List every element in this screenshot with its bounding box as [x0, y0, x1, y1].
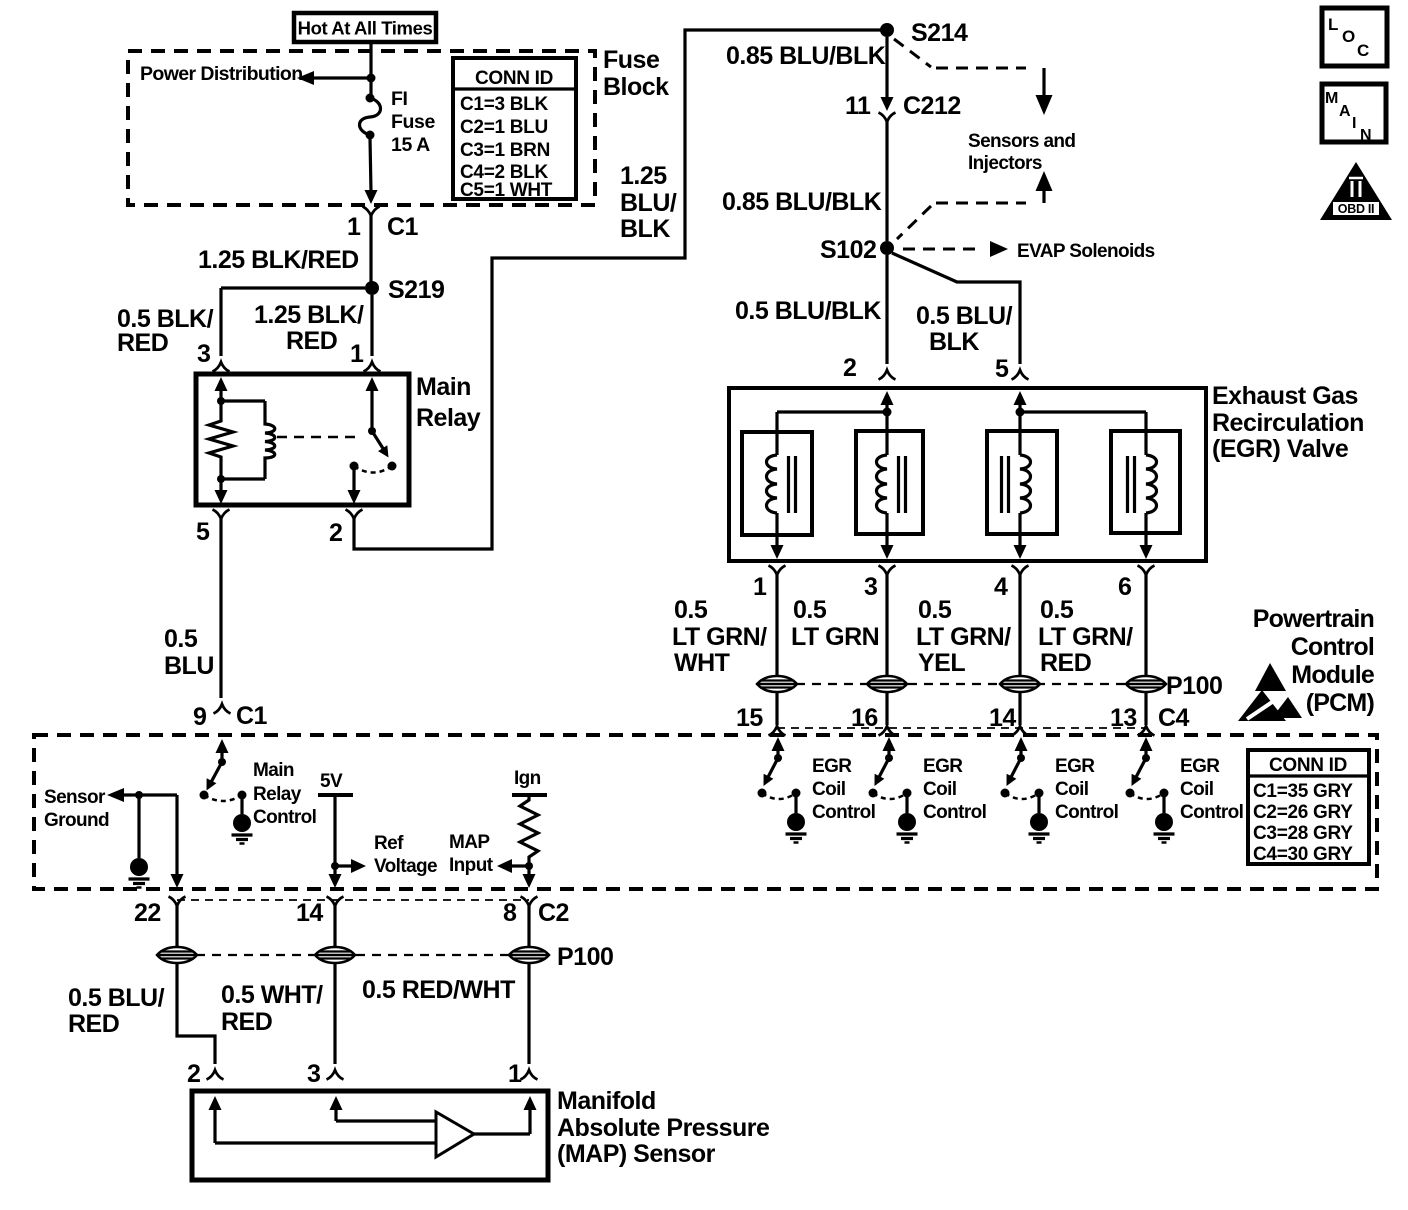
EGR solenoid coil 3 box [987, 431, 1057, 534]
svg-text:RED: RED [1040, 649, 1091, 677]
connector PCM pin 16 [879, 726, 896, 736]
svg-text:16: 16 [851, 704, 878, 732]
svg-text:C212: C212 [903, 92, 961, 120]
wire pin 22 to P100 [175, 906, 178, 947]
EGR valve box [729, 388, 1206, 561]
svg-text:Relay: Relay [416, 404, 481, 432]
svg-text:YEL: YEL [918, 649, 965, 677]
EGR solenoid coil 3 [1018, 412, 1021, 455]
svg-text:C2: C2 [538, 899, 569, 927]
svg-text:Control: Control [1291, 633, 1374, 661]
wire S102 branch to EGR pin 5 [892, 253, 1020, 364]
connector PCM pin 14 [1012, 726, 1029, 736]
EGR solenoid coil 1 [775, 412, 778, 455]
svg-text:Injectors: Injectors [968, 153, 1042, 174]
svg-text:S102: S102 [820, 236, 876, 264]
fuse block dashed box [128, 51, 595, 205]
connector EGR pin 6 [1138, 566, 1155, 576]
svg-text:0.5: 0.5 [793, 596, 827, 624]
svg-text:3: 3 [864, 573, 877, 601]
svg-text:P100: P100 [1166, 672, 1222, 700]
svg-text:C5=1 WHT: C5=1 WHT [460, 180, 553, 201]
svg-text:2: 2 [329, 519, 342, 547]
main relay box [196, 374, 409, 505]
svg-text:Input: Input [449, 855, 494, 876]
connector PCM pin 15 [769, 726, 786, 736]
svg-text:Control: Control [923, 802, 986, 823]
wire MAP pin 2 internal [215, 1141, 436, 1144]
svg-text:Control: Control [812, 802, 875, 823]
svg-text:Control: Control [1055, 802, 1118, 823]
connector MAP pin 2 [207, 1070, 224, 1080]
EGR coil control switch 4 [1140, 737, 1153, 751]
svg-text:CONN ID: CONN ID [475, 68, 553, 89]
connector PCM pin 13 C4 [1138, 726, 1155, 736]
svg-text:Hot At All Times: Hot At All Times [298, 18, 433, 39]
svg-text:5V: 5V [320, 771, 343, 792]
connector PCM pin 8 C2 [521, 897, 538, 907]
svg-text:22: 22 [134, 899, 161, 927]
connector EGR pin 3 [879, 566, 896, 576]
wire sensor ground to pin 22 [175, 795, 178, 875]
fuse FI 15A [366, 94, 375, 103]
svg-text:C4=30 GRY: C4=30 GRY [1253, 844, 1353, 865]
svg-text:Manifold: Manifold [557, 1087, 656, 1115]
svg-text:C4: C4 [1158, 704, 1190, 732]
svg-text:15 A: 15 A [391, 134, 430, 156]
svg-text:Coil: Coil [1055, 779, 1089, 800]
connector main relay pin 1 [364, 362, 381, 372]
svg-text:(PCM): (PCM) [1306, 689, 1375, 717]
svg-text:RED: RED [286, 327, 337, 355]
svg-text:BLU/: BLU/ [620, 189, 677, 217]
svg-text:Ref: Ref [374, 833, 404, 854]
wire S102 to EGR pin 2 [885, 255, 888, 364]
ground EGR coil control 4 [1162, 793, 1165, 813]
CONN ID table fuse block [453, 58, 576, 199]
label Hot At All Times [294, 13, 436, 42]
main relay switch common arrow [366, 377, 379, 391]
wire EGR pin 1 to P100 [775, 575, 778, 676]
svg-text:Coil: Coil [1180, 779, 1214, 800]
svg-text:EGR: EGR [1180, 756, 1220, 777]
in-line connector P100 pin 8 [509, 947, 549, 963]
MAP sensor box [192, 1091, 548, 1180]
connector PCM C4 dashes [777, 727, 1146, 729]
EGR solenoid coil 2 box [856, 431, 923, 534]
wire S219 to pin 1 [370, 295, 373, 356]
svg-text:L: L [1328, 15, 1338, 34]
svg-text:Block: Block [603, 73, 669, 101]
svg-text:O: O [1342, 27, 1355, 46]
svg-text:CONN ID: CONN ID [1269, 755, 1347, 776]
wire 5V to pin 14 [329, 874, 342, 888]
svg-text:EGR: EGR [923, 756, 963, 777]
icon OBD II triangle [1320, 162, 1392, 220]
main relay switch [368, 427, 376, 435]
node S102 [880, 241, 894, 255]
wire EGR pin 4 to P100 [1018, 575, 1021, 676]
main relay resistor [217, 397, 225, 405]
EGR solenoid coil 4 [1144, 412, 1147, 455]
wires P100 to PCM C4 [775, 692, 778, 725]
svg-text:Recirculation: Recirculation [1212, 409, 1364, 437]
svg-text:RED: RED [117, 329, 168, 357]
svg-text:Voltage: Voltage [374, 856, 437, 877]
EGR coil control switch 1 [772, 737, 785, 751]
in-line connector P100 dashes 2 [196, 954, 510, 956]
svg-text:C1: C1 [387, 213, 419, 241]
main relay coil [221, 399, 265, 402]
svg-text:13: 13 [1110, 704, 1137, 732]
EGR solenoid coil 2 [885, 412, 888, 455]
svg-text:2: 2 [187, 1060, 200, 1088]
svg-text:C1=3 BLK: C1=3 BLK [460, 94, 548, 115]
svg-text:1: 1 [347, 213, 361, 241]
ground EGR coil control 1 [794, 793, 797, 813]
main relay coil input arrow [215, 377, 228, 391]
svg-text:1.25 BLK/RED: 1.25 BLK/RED [198, 246, 359, 274]
ground EGR coil control 2 [905, 793, 908, 813]
svg-text:Coil: Coil [923, 779, 957, 800]
svg-text:6: 6 [1118, 573, 1131, 601]
connector main relay pin 5 [213, 510, 230, 520]
svg-text:C3=1 BRN: C3=1 BRN [460, 140, 550, 161]
svg-text:1: 1 [508, 1060, 522, 1088]
svg-text:(MAP) Sensor: (MAP) Sensor [557, 1140, 716, 1168]
EGR solenoid coil 4 box [1111, 431, 1180, 533]
MAP pin 1 arrow [528, 1109, 531, 1134]
svg-text:C1=35 GRY: C1=35 GRY [1253, 781, 1353, 802]
MAP pin 3 arrow [330, 1096, 343, 1110]
svg-text:RED: RED [68, 1010, 119, 1038]
svg-text:(EGR) Valve: (EGR) Valve [1212, 435, 1349, 463]
ground EGR coil control 3 [1037, 793, 1040, 813]
svg-text:Powertrain: Powertrain [1253, 605, 1374, 633]
svg-text:BLK: BLK [620, 215, 670, 243]
in-line connector P100 pin 13 [1126, 676, 1166, 692]
svg-text:1.25: 1.25 [620, 162, 667, 190]
node S219 [365, 281, 379, 295]
connector main relay pin 3 [213, 362, 230, 372]
wire EGR pin 3 to P100 [885, 575, 888, 676]
EGR pin 5 feed [1014, 391, 1027, 405]
svg-text:Sensor: Sensor [44, 787, 106, 808]
wire fuse block top feed [369, 42, 372, 95]
svg-text:Exhaust Gas: Exhaust Gas [1212, 382, 1358, 410]
wire MAP amp output [474, 1132, 530, 1135]
connector PCM pin 22 [169, 897, 186, 907]
in-line connector P100 pin 14 [1000, 676, 1040, 692]
svg-text:5: 5 [995, 355, 1009, 383]
svg-text:C3=28 GRY: C3=28 GRY [1253, 823, 1353, 844]
svg-text:15: 15 [736, 704, 763, 732]
wire fuse to C1 [370, 138, 371, 192]
svg-text:Control: Control [253, 807, 316, 828]
PCM dashed box [34, 735, 1377, 889]
connector C212 pin 11 [881, 97, 894, 111]
svg-text:0.5 BLU/: 0.5 BLU/ [916, 302, 1013, 330]
svg-text:Power Distribution: Power Distribution [140, 63, 303, 85]
svg-text:Main: Main [416, 373, 471, 401]
connector main relay pin 2 [346, 510, 363, 520]
wire P100 to MAP pin 3 [333, 963, 336, 1064]
PCM ESD triangle icon 1 [1255, 663, 1286, 691]
svg-text:S214: S214 [911, 19, 968, 47]
wire P100 to MAP pin 2 [177, 963, 215, 1064]
icon LOC box [1322, 8, 1387, 66]
svg-text:Relay: Relay [253, 784, 302, 805]
svg-text:Ground: Ground [44, 810, 109, 831]
EGR coil control switch 3 [1015, 737, 1028, 751]
connector C1 pin 1 [363, 207, 380, 217]
svg-text:C1: C1 [236, 702, 268, 730]
node S214 [880, 23, 894, 37]
svg-text:0.5: 0.5 [1040, 596, 1074, 624]
svg-text:0.85 BLU/BLK: 0.85 BLU/BLK [726, 42, 886, 70]
svg-text:2: 2 [843, 354, 856, 382]
svg-text:0.5: 0.5 [674, 596, 708, 624]
svg-text:Ign: Ign [514, 768, 541, 789]
wire S219 branch to pin 3 [221, 286, 365, 289]
svg-text:1.25 BLK/: 1.25 BLK/ [254, 301, 364, 329]
svg-text:BLU: BLU [164, 652, 214, 680]
svg-text:A: A [1339, 103, 1351, 120]
svg-text:LT GRN/: LT GRN/ [1038, 623, 1133, 651]
svg-text:LT GRN: LT GRN [791, 623, 879, 651]
PCM ESD triangle icon 2 [1238, 690, 1286, 721]
svg-text:0.5 WHT/: 0.5 WHT/ [221, 981, 323, 1009]
svg-text:EGR: EGR [1055, 756, 1095, 777]
dashed arrow EVAP solenoids [903, 248, 983, 251]
svg-text:4: 4 [994, 573, 1008, 601]
svg-text:Sensors and: Sensors and [968, 131, 1075, 152]
wire C1 to S219 [369, 216, 372, 288]
connector EGR pin 4 [1012, 566, 1029, 576]
wire pin 8 to P100 [527, 906, 530, 947]
MAP pin 2 arrow [209, 1096, 222, 1110]
svg-text:OBD II: OBD II [1338, 202, 1374, 216]
svg-text:C: C [1357, 41, 1369, 60]
svg-text:I: I [1352, 115, 1356, 132]
svg-text:14: 14 [989, 704, 1016, 732]
svg-text:Absolute Pressure: Absolute Pressure [557, 1114, 770, 1142]
svg-text:N: N [1360, 127, 1372, 144]
dashed branch to sensors and injectors [894, 39, 931, 67]
svg-text:Module: Module [1291, 661, 1375, 689]
ref voltage arrow [335, 864, 352, 867]
svg-text:1: 1 [350, 340, 364, 368]
svg-text:Coil: Coil [812, 779, 846, 800]
svg-text:0.5 BLU/BLK: 0.5 BLU/BLK [735, 297, 881, 325]
main relay switch output arrow [352, 466, 355, 492]
EGR pin 2 feed [881, 391, 894, 405]
svg-text:C2=26 GRY: C2=26 GRY [1253, 802, 1353, 823]
in-line connector P100 dashes [796, 683, 1127, 685]
wire EGR pin 6 to P100 [1144, 575, 1147, 676]
svg-text:BLK: BLK [929, 328, 979, 356]
svg-text:5: 5 [196, 518, 210, 546]
svg-text:0.5 RED/WHT: 0.5 RED/WHT [362, 976, 515, 1004]
svg-text:11: 11 [845, 92, 871, 120]
connector MAP pin 1 [521, 1070, 538, 1080]
connector EGR pin 1 [769, 566, 786, 576]
icon MAIN box [1322, 84, 1386, 142]
svg-text:8: 8 [503, 899, 517, 927]
resistor Ign pullup [520, 795, 538, 866]
main relay dashed actuator link [277, 436, 362, 439]
EGR solenoid coil 1 box [742, 432, 812, 535]
sensor ground arrow [107, 788, 124, 802]
EGR coil control switch 2 [883, 737, 896, 751]
svg-text:0.5: 0.5 [918, 596, 952, 624]
svg-text:1: 1 [753, 573, 767, 601]
in-line connector P100 pin 22 [157, 947, 197, 963]
wire C212 to S102 [885, 122, 888, 241]
svg-text:EVAP Solenoids: EVAP Solenoids [1017, 241, 1155, 262]
svg-text:Fuse: Fuse [391, 111, 435, 133]
in-line connector P100 pin 14 b [315, 947, 355, 963]
ground main relay control [240, 795, 243, 814]
svg-text:EGR: EGR [812, 756, 852, 777]
svg-text:FI: FI [391, 88, 408, 110]
main relay coil output arrow [219, 479, 222, 492]
wire main relay pin 2 to S214 [354, 30, 886, 549]
wire Ign to pin 8 [527, 866, 530, 875]
main relay control switch [216, 739, 229, 753]
CONN ID table PCM [1248, 750, 1369, 864]
MAP input arrow [508, 864, 529, 867]
svg-text:Control: Control [1180, 802, 1243, 823]
svg-text:M: M [1325, 90, 1338, 107]
wire MAP pin 3 internal [336, 1119, 436, 1122]
svg-text:MAP: MAP [449, 832, 490, 853]
svg-text:LT GRN/: LT GRN/ [916, 623, 1011, 651]
svg-text:3: 3 [197, 340, 210, 368]
svg-text:0.5: 0.5 [164, 625, 198, 653]
svg-text:Main: Main [253, 760, 294, 781]
svg-text:LT GRN/: LT GRN/ [672, 623, 767, 651]
op-amp MAP sensor [436, 1112, 474, 1157]
wire pin 5 to PCM 9 C1 [219, 519, 222, 698]
svg-text:WHT: WHT [674, 649, 730, 677]
svg-text:9: 9 [193, 703, 206, 731]
wire pin 14 to P100 [333, 906, 336, 947]
wire S214 down [885, 37, 888, 97]
power distribution arrow [312, 76, 371, 79]
svg-text:14: 14 [296, 899, 323, 927]
connector PCM C2 dashes [177, 899, 529, 901]
svg-text:RED: RED [221, 1008, 272, 1036]
in-line connector P100 pin 16 [867, 676, 907, 692]
svg-text:P100: P100 [557, 943, 613, 971]
connector EGR pin 5 [1012, 370, 1029, 380]
wire P100 to MAP pin 1 [527, 963, 530, 1064]
dashed branch injectors up arrow [1036, 171, 1053, 191]
svg-text:0.85 BLU/BLK: 0.85 BLU/BLK [722, 188, 882, 216]
connector MAP pin 3 [327, 1070, 344, 1080]
svg-text:0.5 BLU/: 0.5 BLU/ [68, 984, 165, 1012]
ground sensor ground [137, 795, 140, 858]
svg-text:C2=1 BLU: C2=1 BLU [460, 117, 548, 138]
connector PCM pin 14 [327, 897, 344, 907]
connector EGR pin 2 [879, 370, 896, 380]
svg-text:S219: S219 [388, 276, 444, 304]
svg-text:Fuse: Fuse [603, 46, 660, 74]
in-line connector P100 pin 15 [757, 676, 797, 692]
svg-text:3: 3 [307, 1060, 320, 1088]
